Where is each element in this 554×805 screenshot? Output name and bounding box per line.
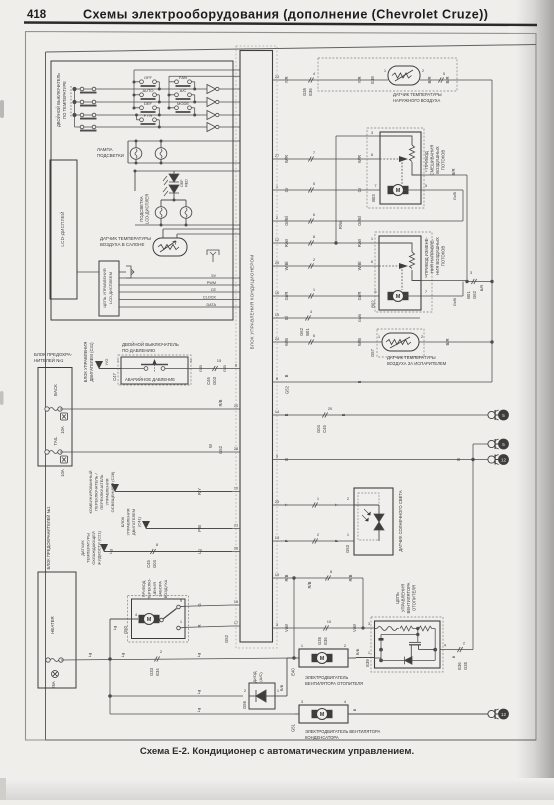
svg-text:25: 25 <box>275 499 280 504</box>
svg-text:E34: E34 <box>155 668 160 676</box>
bus left pin 16 <box>232 604 240 606</box>
svg-text:R/B: R/B <box>218 399 223 406</box>
push button DEF <box>134 106 159 115</box>
ground point row3 <box>488 455 499 465</box>
svg-text:Gr: Gr <box>357 187 362 192</box>
lamp left tie <box>127 141 129 163</box>
svg-text:PWM: PWM <box>207 281 216 285</box>
svg-text:ПОДСВЕТКИ: ПОДСВЕТКИ <box>97 153 124 158</box>
wire Y/R pin23 row <box>281 79 388 81</box>
svg-text:B: B <box>352 708 357 711</box>
svg-text:16: 16 <box>234 599 239 604</box>
B02 wiper dashed <box>379 265 399 267</box>
bus left pin 6 <box>232 368 240 370</box>
bus right pin 16 <box>273 295 282 297</box>
svg-text:W: W <box>208 444 213 448</box>
svg-text:УПРАВЛЕНИЯ: УПРАВЛЕНИЯ <box>401 584 406 612</box>
G50 G wire to bus <box>185 605 232 606</box>
svg-text:R/Y: R/Y <box>197 488 202 495</box>
svg-text:БЛОК УПРАВЛЕНИЯ КОНДИЦИОНЕРОМ: БЛОК УПРАВЛЕНИЯ КОНДИЦИОНЕРОМ <box>250 255 255 350</box>
svg-text:DEF: DEF <box>180 179 184 187</box>
E39 diode <box>405 657 413 665</box>
wire switch row 2 <box>75 101 208 103</box>
F/R button riser <box>136 115 138 120</box>
svg-text:УПРАВЛЕНИЯ: УПРАВЛЕНИЯ <box>126 508 131 535</box>
junction switch common 3 <box>72 113 76 117</box>
E39 left column <box>380 635 382 661</box>
svg-text:ДАТЧИК ТЕМПЕРАТУРЫ: ДАТЧИК ТЕМПЕРАТУРЫ <box>387 355 436 360</box>
wire Bl pin15 row <box>281 317 420 319</box>
wire B pin14 row to ground <box>281 414 488 416</box>
connector G04/C45 <box>322 412 327 417</box>
buffer amplifier row 4 <box>207 123 216 132</box>
wire R/B pin19 row <box>281 577 363 579</box>
wire Gr/R pin16 row <box>281 295 389 297</box>
svg-text:23: 23 <box>275 74 280 79</box>
junction Lg row2 <box>108 694 112 698</box>
G50 dashed box <box>128 596 189 643</box>
svg-text:ЭЛЕКТРОДВИГАТЕЛЬ ВЕНТИЛЯТОРА: ЭЛЕКТРОДВИГАТЕЛЬ ВЕНТИЛЯТОРА <box>305 729 380 734</box>
svg-text:G50: G50 <box>123 625 128 634</box>
E40 motor box <box>299 649 348 667</box>
svg-text:MODE: MODE <box>177 101 189 106</box>
svg-text:5: 5 <box>502 442 505 447</box>
svg-text:20: 20 <box>328 406 333 411</box>
svg-text:W/R: W/R <box>357 155 362 163</box>
svg-text:FAN: FAN <box>179 75 187 80</box>
temperature switch S2 <box>80 100 97 105</box>
fuse block upper box <box>38 368 72 467</box>
svg-text:OFF: OFF <box>144 75 153 80</box>
junction switch common 2 <box>72 100 76 104</box>
wire R/Y <box>115 491 232 493</box>
svg-text:ЖИДКОСТИ (С21): ЖИДКОСТИ (С21) <box>97 530 102 565</box>
fuse block lower box <box>38 572 76 688</box>
connector G33/E34 <box>154 656 159 661</box>
wire W/R pin27 row <box>281 158 380 160</box>
push button FAN <box>169 80 195 89</box>
G56 diode symbol <box>249 690 275 702</box>
fuse TAIL 10A <box>45 450 62 454</box>
svg-text:R/B: R/B <box>348 574 353 581</box>
fuse BACK 10A <box>45 407 62 411</box>
svg-text:G56: G56 <box>242 700 247 709</box>
svg-text:A/C: A/C <box>180 88 187 93</box>
svg-text:R/W: R/W <box>357 239 362 247</box>
svg-text:M: M <box>320 656 325 662</box>
svg-text:ПО ТЕМПЕРАТУРЕ: ПО ТЕМПЕРАТУРЕ <box>62 81 67 119</box>
svg-text:ПРИВОД: ПРИВОД <box>141 580 146 597</box>
sensor G57 capsule <box>382 333 419 351</box>
junction to B01/G62 connector <box>465 280 468 283</box>
connector E36/G35 at E39 <box>457 647 462 652</box>
G50 Lg feed <box>109 619 111 659</box>
svg-text:TAIL: TAIL <box>53 436 58 446</box>
svg-text:ПЕРЕКЛЮ-: ПЕРЕКЛЮ- <box>147 578 152 600</box>
svg-text:R/W: R/W <box>338 221 343 229</box>
svg-text:Gr/B: Gr/B <box>452 192 457 201</box>
svg-text:10A: 10A <box>60 426 65 434</box>
svg-text:E40: E40 <box>291 668 296 676</box>
svg-text:13: 13 <box>275 535 280 540</box>
LED DEF <box>163 174 179 185</box>
wire W/B pin24 row <box>281 341 382 343</box>
switch common vertical <box>74 89 76 127</box>
svg-text:ДВОЙНОЙ ВЫКЛЮЧАТЕЛЬ: ДВОЙНОЙ ВЫКЛЮЧАТЕЛЬ <box>56 73 61 127</box>
bus right pin 25 <box>273 504 282 506</box>
svg-text:W/R: W/R <box>284 155 289 163</box>
svg-text:B01: B01 <box>466 291 471 299</box>
bus left pin 20 <box>232 408 240 410</box>
bus left pin 26 <box>232 551 240 553</box>
svg-text:НИЯ НАПРАВЛЕ-: НИЯ НАПРАВЛЕ- <box>430 238 435 273</box>
schematic frame left <box>45 52 47 740</box>
svg-text:G/B: G/B <box>222 365 227 372</box>
svg-text:Gr/R: Gr/R <box>284 292 289 301</box>
svg-text:14: 14 <box>275 409 280 414</box>
E39 bottom wire with diode <box>375 657 382 659</box>
svg-text:НИТЕЛЕЙ №1: НИТЕЛЕЙ №1 <box>34 358 64 363</box>
switch common dashed bracket <box>70 86 72 118</box>
svg-text:ОХЛАЖДАЮЩЕЙ: ОХЛАЖДАЮЩЕЙ <box>91 531 96 564</box>
svg-text:ДВИГАТЕЛЕМ: ДВИГАТЕЛЕМ <box>131 509 136 535</box>
B02 pin3 wire <box>421 280 467 282</box>
temperature switch S4 <box>80 125 97 130</box>
E40 left stub <box>294 657 299 659</box>
svg-text:E36: E36 <box>457 662 462 670</box>
svg-text:АВАРИЙНОЕ ДАВЛЕНИЕ: АВАРИЙНОЕ ДАВЛЕНИЕ <box>125 377 175 382</box>
svg-text:24: 24 <box>275 336 280 341</box>
svg-text:Gr: Gr <box>284 187 289 192</box>
LCD backlight lamp <box>180 207 192 219</box>
svg-text:R/B: R/B <box>355 648 360 655</box>
wire buffer 4 to bus <box>219 126 240 128</box>
G51 motor box <box>299 705 348 723</box>
svg-text:НИЯ ВОЗДУШНЫХ: НИЯ ВОЗДУШНЫХ <box>435 237 440 275</box>
svg-text:B02: B02 <box>371 300 376 308</box>
G53 inner dashed <box>358 493 379 540</box>
bus left pin 21 <box>232 528 240 530</box>
svg-text:ЛАМПА: ЛАМПА <box>97 147 113 152</box>
push button MODE <box>169 106 195 115</box>
wire B pin8 row <box>281 381 492 383</box>
svg-text:G57: G57 <box>370 348 375 357</box>
svg-text:V/W: V/W <box>352 624 357 632</box>
wire V/W pin3 row <box>281 627 375 629</box>
B03 motor right wire <box>404 189 422 191</box>
bus right pin 27 <box>273 158 282 160</box>
E38 dashed box <box>318 58 457 91</box>
bus right pin 14 <box>273 414 282 416</box>
svg-text:ПО ДАВЛЕНИЮ: ПО ДАВЛЕНИЮ <box>122 348 156 353</box>
junction right rail <box>490 280 493 283</box>
svg-text:ОТОПИТЕЛЯ: ОТОПИТЕЛЯ <box>412 585 417 611</box>
svg-text:28: 28 <box>234 446 239 451</box>
svg-text:B: B <box>456 458 461 461</box>
wire B/R after E38 <box>420 79 492 81</box>
svg-text:G33: G33 <box>149 667 154 676</box>
bus right pin 2 <box>273 220 282 222</box>
A/C control unit dashed boundary <box>236 46 277 648</box>
svg-text:B: B <box>357 380 362 383</box>
svg-text:B/R: B/R <box>427 77 432 84</box>
wire buffer 1 to bus <box>219 88 240 90</box>
svg-text:V/W: V/W <box>284 624 289 632</box>
bus right pin 15 <box>273 317 282 319</box>
svg-text:G52: G52 <box>285 385 290 394</box>
motor G50 <box>139 614 160 625</box>
svg-text:ОСВЕЩЕНИЕМ (С28): ОСВЕЩЕНИЕМ (С28) <box>110 471 115 512</box>
page right edge shadow <box>516 0 554 800</box>
wire B/R after G57 <box>419 341 492 343</box>
signal wire CLOCK <box>119 299 240 301</box>
svg-text:B: B <box>284 374 289 377</box>
svg-text:ПРИВОД ИЗМЕНЕ-: ПРИВОД ИЗМЕНЕ- <box>424 237 429 275</box>
signal wire 5V <box>119 277 240 279</box>
G50 R wire to bus <box>185 626 232 627</box>
svg-text:ДАТЧИК СОЛНЕЧНОГО СВЕТА: ДАТЧИК СОЛНЕЧНОГО СВЕТА <box>398 490 403 552</box>
sensor wires to bus <box>163 228 240 230</box>
E40 right stub <box>348 657 356 659</box>
wire Lg row3 to G51 <box>110 713 295 715</box>
svg-text:ВЕНТИЛЯТОРА: ВЕНТИЛЯТОРА <box>406 582 411 613</box>
cabin temperature sensor capsule <box>153 238 187 256</box>
svg-text:W/Bl: W/Bl <box>357 262 362 271</box>
triangle engine ECU P/B <box>142 521 150 529</box>
svg-text:Lg: Lg <box>112 626 117 630</box>
svg-text:ДАТЧИК: ДАТЧИК <box>80 540 85 556</box>
svg-text:G52: G52 <box>224 634 229 643</box>
svg-text:G04: G04 <box>152 559 157 568</box>
scan artifact left edge 1 <box>0 100 4 118</box>
svg-text:Lg: Lg <box>197 549 202 554</box>
junction switch common 1 <box>72 87 76 91</box>
svg-text:12: 12 <box>501 712 507 717</box>
E39 box <box>375 621 441 668</box>
bus right pin 24 <box>273 341 282 343</box>
svg-text:DEF: DEF <box>144 101 153 106</box>
B03 wiper-motor dashed vertical <box>401 159 403 184</box>
svg-text:418: 418 <box>27 9 47 21</box>
svg-text:ЦЕПЬ: ЦЕПЬ <box>395 592 400 604</box>
push button AUTO <box>134 93 159 102</box>
svg-text:AUTO: AUTO <box>142 88 153 93</box>
bus left pin 10 <box>232 491 240 493</box>
svg-text:BACK: BACK <box>53 384 58 396</box>
svg-text:Gr/Bl: Gr/Bl <box>284 216 289 226</box>
svg-text:5V: 5V <box>211 274 216 278</box>
svg-text:Lg: Lg <box>196 653 201 657</box>
control panel assembly box <box>51 61 233 320</box>
svg-text:B/R: B/R <box>445 339 450 346</box>
svg-text:E36: E36 <box>308 88 313 96</box>
junction R/W riser <box>334 241 337 244</box>
svg-text:10: 10 <box>327 619 332 624</box>
svg-text:ВОЗДУШНЫХ: ВОЗДУШНЫХ <box>435 146 440 174</box>
B03 wiper dashed <box>380 158 399 160</box>
pressure switch dashed box <box>118 355 191 385</box>
svg-text:LCD-ДИСПЛЕЙ: LCD-ДИСПЛЕЙ <box>58 211 65 246</box>
lamp drop <box>135 141 137 148</box>
wire B to ground <box>348 713 488 715</box>
svg-text:Lg: Lg <box>108 549 113 553</box>
push button A/C <box>169 93 195 102</box>
B02 dashed box <box>375 232 432 312</box>
svg-text:M: M <box>320 712 325 718</box>
svg-text:B: B <box>451 655 456 658</box>
svg-text:G/B: G/B <box>198 365 203 372</box>
svg-text:R/W: R/W <box>284 239 289 247</box>
svg-text:СМЕШИВАНИЯ: СМЕШИВАНИЯ <box>430 145 435 176</box>
shield symbol upper <box>207 250 219 262</box>
G50 switch arm <box>160 605 185 630</box>
svg-text:G62: G62 <box>299 327 304 336</box>
button matrix rail 2 <box>169 75 240 77</box>
button matrix left column 2 <box>168 76 170 108</box>
illumination lamp <box>155 148 167 160</box>
bus right pin 19 <box>273 577 282 579</box>
svg-text:G35: G35 <box>302 87 307 96</box>
G56 diode box <box>249 683 275 709</box>
svg-text:ЗАБОРА: ЗАБОРА <box>158 581 163 597</box>
wire LCD to control box <box>77 271 99 273</box>
svg-text:G03: G03 <box>212 376 217 385</box>
bus right pin 12 <box>273 242 282 244</box>
svg-text:Схемы электрооборудования (доп: Схемы электрооборудования (дополнение (C… <box>83 8 488 22</box>
connector C46/G03 <box>212 366 217 371</box>
button matrix left column 1 <box>133 70 135 108</box>
buffer amplifier row 2 <box>207 98 216 107</box>
G56 output riser R/B <box>275 695 287 697</box>
E39 gate tap row <box>381 634 418 636</box>
svg-text:БЛОК ПРЕДОХРАНИТЕЛЕЙ №1: БЛОК ПРЕДОХРАНИТЕЛЕЙ №1 <box>46 506 51 570</box>
G53 sun sensor box <box>354 488 393 555</box>
button matrix rail 1 <box>134 69 240 71</box>
svg-text:M: M <box>396 294 401 300</box>
signal wire DATA <box>119 306 240 308</box>
motor B03 <box>388 185 409 196</box>
svg-text:E39: E39 <box>365 659 370 667</box>
wire Gr/Bl pin2 row <box>281 220 463 222</box>
bus left pin 17 <box>232 625 240 627</box>
svg-text:P/B: P/B <box>197 525 202 532</box>
temperature switch S1 <box>80 87 97 92</box>
ground point G51 <box>488 709 499 719</box>
motor G51 <box>312 709 333 720</box>
motor B02 <box>388 291 409 302</box>
svg-text:КОМБИНИРОВАННЫЙ: КОМБИНИРОВАННЫЙ <box>88 470 93 513</box>
svg-text:19: 19 <box>275 572 280 577</box>
E39 top resistor wire <box>375 626 436 631</box>
svg-text:Y/R: Y/R <box>284 77 289 84</box>
connector C45/G04 <box>150 549 155 554</box>
svg-text:Gr/B: Gr/B <box>452 298 457 307</box>
push button F / R <box>137 118 160 127</box>
wire Y pin25 row <box>281 504 354 506</box>
B03 motor to Gr/Bl rail <box>421 189 463 191</box>
push button OFF <box>134 80 159 89</box>
svg-text:G35: G35 <box>463 661 468 670</box>
rail down to E39 B wire <box>472 460 474 650</box>
R/W riser to B03 <box>335 136 337 243</box>
fuse HEATER 25A <box>46 658 63 662</box>
B03 pin1 wire to rail <box>421 174 467 176</box>
svg-text:Bl: Bl <box>284 316 289 320</box>
wire W row <box>60 451 232 453</box>
svg-text:ДАТЧИК ТЕМПЕРАТУРЫ: ДАТЧИК ТЕМПЕРАТУРЫ <box>100 236 151 241</box>
wire switch row 1 <box>75 88 208 90</box>
svg-text:W/B: W/B <box>284 338 289 346</box>
scan artifact bottom left <box>0 778 6 800</box>
svg-text:B: B <box>284 458 289 461</box>
svg-text:ПЕРЕКЛЮЧАТЕЛЬ: ПЕРЕКЛЮЧАТЕЛЬ <box>99 474 104 510</box>
svg-text:HEATER: HEATER <box>50 616 55 633</box>
svg-text:(А/С): (А/С) <box>258 672 263 682</box>
page bottom edge shadow <box>0 778 554 800</box>
svg-text:БЛОК ПРЕДОХРА-: БЛОК ПРЕДОХРА- <box>34 352 73 357</box>
connector B01/G62 <box>471 279 476 284</box>
illumination lamp <box>130 148 142 160</box>
schematic frame bottom <box>46 739 537 741</box>
right rail from E38 down <box>491 80 493 382</box>
svg-text:G04: G04 <box>316 424 321 433</box>
bus right pin 13 <box>273 540 282 542</box>
svg-text:W/Bl: W/Bl <box>284 262 289 271</box>
E39 right column <box>434 629 436 661</box>
svg-text:B01: B01 <box>305 328 310 336</box>
svg-text:C45: C45 <box>146 559 151 567</box>
buffer amplifier row 3 <box>207 111 216 120</box>
wire buffer 3 to bus <box>219 114 240 116</box>
wire Gr pin1 row <box>281 189 389 191</box>
G50 box <box>132 599 186 639</box>
svg-text:12: 12 <box>501 457 507 462</box>
svg-text:E38: E38 <box>370 76 375 84</box>
svg-text:R/B: R/B <box>279 684 284 691</box>
junction rail G57 <box>490 340 493 343</box>
LCD display box <box>50 160 77 299</box>
wire switch row 3 <box>75 114 208 116</box>
svg-text:КОНДЕНСАТОРА: КОНДЕНСАТОРА <box>305 735 339 740</box>
svg-text:B03: B03 <box>371 194 376 202</box>
LED string: wires <box>173 171 175 174</box>
svg-text:ПОДСВЕТКА: ПОДСВЕТКА <box>139 196 144 222</box>
ground point row1 <box>488 410 499 420</box>
svg-text:БЛОК: БЛОК <box>120 516 125 527</box>
svg-text:LCD-ДИСПЛЕЕМ: LCD-ДИСПЛЕЕМ <box>108 272 113 304</box>
svg-text:R: R <box>197 624 202 627</box>
schematic frame top <box>46 45 537 53</box>
svg-text:CE: CE <box>211 288 217 292</box>
svg-text:ПЕРЕКЛЮЧАТЕЛЬ /: ПЕРЕКЛЮЧАТЕЛЬ / <box>94 472 99 510</box>
svg-text:ДАТЧИК ТЕМПЕРАТУРЫ: ДАТЧИК ТЕМПЕРАТУРЫ <box>393 92 442 97</box>
svg-text:G53: G53 <box>345 544 350 553</box>
svg-text:B/R: B/R <box>479 285 484 292</box>
wire B pin9 row to ground <box>281 459 488 461</box>
G57 dashed box <box>377 329 424 357</box>
svg-text:R/B: R/B <box>284 574 289 581</box>
svg-text:B: B <box>341 413 346 416</box>
connector in B/R row <box>438 77 443 82</box>
svg-text:C47: C47 <box>112 372 117 380</box>
svg-text:W/B: W/B <box>357 338 362 346</box>
buffer amplifier row 1 <box>207 85 216 94</box>
svg-text:M: M <box>396 188 401 194</box>
wire Y/G <box>99 368 121 370</box>
svg-text:E36: E36 <box>323 637 328 645</box>
ground point row2 <box>488 439 499 449</box>
lamp return wire <box>128 162 240 164</box>
